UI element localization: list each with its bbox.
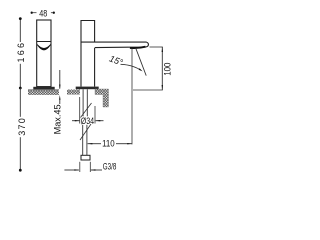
dimension Ø34 extension lines bbox=[79, 97, 81, 124]
water stream slanted line bbox=[136, 49, 146, 76]
rod break slash upper bbox=[81, 103, 92, 118]
dimension Max.45 down arrow bbox=[59, 70, 61, 89]
side view base plate bbox=[76, 87, 99, 90]
dimension G3/8 extension lines bbox=[79, 162, 81, 172]
svg-text:166: 166 bbox=[16, 43, 26, 63]
dimension 166 line bbox=[19, 19, 21, 88]
svg-text:110: 110 bbox=[102, 138, 115, 149]
G3/8 fitting bbox=[81, 155, 90, 160]
water stream vertical line bbox=[131, 49, 133, 145]
side view countertop right hatch L-block bbox=[95, 89, 109, 107]
side view aerator thick underside bbox=[130, 47, 146, 48]
dimension 48 left arrow bbox=[31, 12, 33, 14]
dimension 100 line bbox=[161, 47, 163, 90]
side view body outline bbox=[81, 21, 95, 87]
svg-text:370: 370 bbox=[17, 118, 27, 136]
dimension Max.45 up arrow bbox=[59, 95, 60, 100]
front view handle arc bbox=[37, 44, 50, 50]
front view seam line bbox=[37, 41, 51, 43]
dimension 48 right arrow bbox=[53, 12, 55, 14]
side view spout top line bbox=[81, 42, 148, 48]
dimension 110 line bbox=[88, 143, 101, 145]
svg-text:48: 48 bbox=[39, 9, 47, 20]
svg-text:G3/8: G3/8 bbox=[103, 162, 117, 173]
dimension 100 bottom extension line bbox=[133, 89, 163, 91]
dimension Ø34 arrows bbox=[72, 120, 79, 122]
svg-text:100: 100 bbox=[162, 63, 173, 76]
front view base plate bbox=[33, 87, 54, 90]
dimension 370 line bbox=[19, 88, 21, 170]
dimension 100 top extension line bbox=[150, 46, 163, 48]
side view countertop left hatch bbox=[67, 90, 80, 95]
dimension G3/8 arrows bbox=[64, 169, 79, 171]
svg-text:Max.45: Max.45 bbox=[53, 104, 63, 134]
front view faucet body bbox=[37, 20, 51, 87]
rod break slash lower bbox=[80, 124, 91, 140]
svg-text:Ø34: Ø34 bbox=[81, 116, 94, 127]
front view countertop hatch bbox=[28, 90, 59, 95]
15 degree leader arc bbox=[121, 64, 141, 70]
threaded rod below deck bbox=[83, 89, 88, 155]
